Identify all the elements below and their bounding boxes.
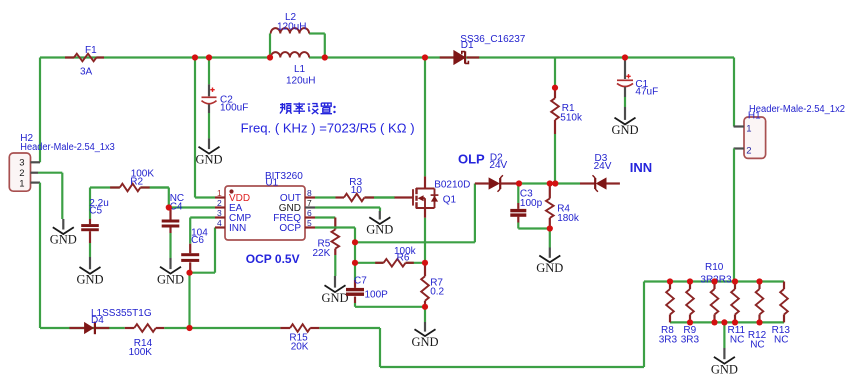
svg-text:47uF: 47uF — [635, 87, 658, 98]
wire top rail left segment (H2.3 to L1) — [40, 58, 270, 163]
resistor R4 180k — [546, 184, 580, 229]
junction Q1 source - R6 - R7 — [422, 260, 428, 266]
svg-text:C5: C5 — [89, 206, 102, 217]
wire H1 pin2 to resistor bank — [733, 149, 735, 282]
junction bank top x=690 — [687, 278, 693, 284]
junction bank top x=735 — [732, 278, 738, 284]
junction R1 bottom node — [552, 180, 558, 186]
diode D2 24V (zener) — [475, 152, 519, 191]
svg-text:6: 6 — [307, 208, 312, 218]
junction bank bottom x=735 — [732, 319, 738, 325]
svg-text:GND: GND — [611, 123, 638, 137]
junction C6-INN — [186, 270, 192, 276]
capacitor C7 100P — [346, 276, 388, 303]
resistor R12 — [756, 282, 764, 323]
svg-text:2: 2 — [746, 145, 751, 156]
junction rail-L1 right — [322, 54, 328, 60]
svg-text:22K: 22K — [313, 248, 331, 259]
wire C7 bottom to R7 bottom — [355, 303, 425, 307]
junction R4 top — [547, 180, 553, 186]
fuse F1 3A — [65, 45, 104, 78]
diode D4 L1SS355T1G — [69, 308, 151, 334]
wire R2 left to C5 — [89, 188, 91, 220]
svg-text:3: 3 — [19, 158, 24, 169]
ground at H2 pin2 — [50, 219, 77, 247]
inductor L2 120uH (parallel) — [271, 12, 309, 34]
junction R1 top — [552, 85, 558, 91]
diode D3 24V (zener) — [580, 153, 620, 192]
svg-text:1: 1 — [746, 123, 751, 134]
junction rail-VDD branch — [192, 54, 198, 60]
resistor R14 100K — [125, 324, 164, 358]
connector H1 Header-Male-2.54_1x2 — [734, 104, 846, 158]
resistor R5 22K — [313, 218, 340, 277]
wire EA net (R2 to U1 pin 2) — [150, 188, 215, 208]
ground under C1 — [611, 107, 638, 137]
resistor R13 — [780, 282, 788, 323]
junction rail-Q1 drain branch — [422, 54, 428, 60]
diode D1 SS36_C16237 (schottky) — [440, 34, 526, 64]
junction INN-bottom wire — [186, 325, 192, 331]
svg-text:24V: 24V — [489, 160, 507, 171]
wire H2 pin2 to ground — [38, 173, 62, 219]
wire top rail right segment (L1 to H1.1) — [309, 58, 734, 127]
svg-text:B0210D: B0210D — [434, 180, 470, 191]
svg-text:24V: 24V — [594, 161, 612, 172]
svg-text:INN: INN — [630, 160, 652, 175]
junction bank bottom x=714.5 — [711, 319, 717, 325]
svg-text:NC: NC — [750, 339, 764, 350]
junction R7 - C7 - ground — [422, 304, 428, 310]
wire U1 pin7 to ground — [315, 208, 380, 212]
svg-text:GND: GND — [50, 233, 77, 247]
capacitor C3 100p — [510, 184, 550, 229]
svg-text:GND: GND — [76, 273, 103, 287]
svg-text:GND: GND — [711, 362, 738, 376]
transistor Q1 B0210D (NMOS) — [374, 58, 470, 263]
svg-text:GND: GND — [195, 152, 222, 166]
resistor R3 10 — [315, 177, 395, 201]
svg-text:GND: GND — [157, 272, 184, 286]
svg-text:F1: F1 — [85, 45, 97, 56]
svg-text:C7: C7 — [354, 276, 367, 287]
svg-text:3A: 3A — [80, 67, 93, 78]
svg-text:GND: GND — [411, 335, 438, 349]
svg-text:1: 1 — [19, 178, 24, 189]
label R11 value — [728, 325, 746, 346]
svg-text:OLP: OLP — [458, 152, 485, 167]
net label INN — [630, 160, 652, 175]
op-amp U1 BIT3260 (controller IC) — [215, 171, 315, 240]
ground under R7 — [411, 307, 438, 349]
wire bottom net to resistor bank — [380, 282, 644, 368]
ground under C5 — [76, 257, 103, 287]
svg-text:120uH: 120uH — [277, 22, 306, 33]
svg-text:OCP: OCP — [279, 223, 301, 234]
junction bank top x=670 — [667, 278, 673, 284]
svg-text:100uF: 100uF — [220, 103, 248, 114]
capacitor C2 100uF — [202, 58, 249, 139]
svg-text:1: 1 — [217, 188, 222, 198]
junction rail-C1 — [622, 54, 628, 60]
wire resistor bank bottom rail — [670, 321, 784, 323]
svg-text:Header-Male-2.54_1x2: Header-Male-2.54_1x2 — [749, 104, 845, 115]
label R13 value — [772, 325, 791, 346]
junction rail-C2 — [206, 54, 212, 60]
junction OCP-R6 — [352, 260, 358, 266]
junction bank top x=759.5 — [756, 278, 762, 284]
svg-text:U1: U1 — [265, 178, 278, 189]
wire resistor bank top rail — [644, 280, 784, 282]
svg-text:D1: D1 — [461, 40, 474, 51]
svg-text:0.2: 0.2 — [430, 286, 444, 297]
wire VDD branch (rail to U1 pin 1) — [195, 58, 215, 198]
ground under R5 — [321, 276, 348, 305]
svg-text:R2: R2 — [130, 177, 143, 188]
capacitor C1 47uF — [617, 58, 658, 108]
label R9 value — [681, 325, 700, 346]
ground under R4 — [536, 229, 563, 276]
svg-text:3: 3 — [217, 208, 222, 218]
junction bank bottom x=759.5 — [756, 319, 762, 325]
svg-text:GND: GND — [536, 261, 563, 275]
net label OLP — [458, 152, 485, 167]
svg-text:120uH: 120uH — [286, 76, 315, 87]
svg-text:NC: NC — [774, 335, 788, 346]
svg-text:510k: 510k — [560, 112, 583, 123]
wire CMP net (U1 pin 3 to C6) — [190, 218, 215, 244]
svg-text:GND: GND — [321, 291, 348, 305]
resistor R9 — [686, 282, 694, 323]
resistor R7 0.2 — [421, 263, 444, 307]
resistor R11 — [731, 282, 739, 323]
wire INN net (U1 pin 4 down to bottom) — [190, 228, 216, 329]
note text: frequency setting (Chinese) — [280, 103, 336, 115]
junction OCP-OLP wire — [352, 239, 358, 245]
svg-text:NC: NC — [730, 335, 744, 346]
note text OCP 0.5V — [246, 252, 300, 266]
svg-text:GND: GND — [366, 223, 393, 237]
junction bank bottom x=690 — [687, 319, 693, 325]
wire OLP net (to D2 anode) — [355, 184, 475, 243]
svg-text:Header-Male-2.54_1x3: Header-Male-2.54_1x3 — [20, 142, 115, 153]
svg-text:5: 5 — [307, 218, 312, 228]
label R10 value — [700, 262, 732, 286]
svg-text:D4: D4 — [91, 315, 104, 326]
svg-text:Q1: Q1 — [443, 195, 457, 206]
svg-text:4: 4 — [217, 218, 222, 228]
svg-text:Freq. ( KHz ) =7023/R5 ( KΩ ): Freq. ( KHz ) =7023/R5 ( KΩ ) — [241, 122, 415, 136]
svg-text:L1: L1 — [294, 64, 306, 75]
svg-text:7: 7 — [307, 198, 312, 208]
junction D2-C3-R4 node — [516, 180, 522, 186]
connector H2 Header-Male-2.54_1x3 — [9, 133, 115, 191]
wire H2 pin1 down (left vertical) — [39, 183, 41, 328]
resistor R1 510k — [551, 58, 583, 184]
note text: Freq formula — [241, 122, 415, 136]
ground under C4 — [157, 258, 184, 286]
junction EA-C4 — [166, 204, 172, 210]
svg-text:3R3: 3R3 — [681, 335, 700, 346]
svg-text:8: 8 — [307, 188, 312, 198]
label R8 value — [659, 325, 678, 346]
svg-text:100P: 100P — [365, 290, 389, 301]
wire OCP net (U1 pin 5 down to C7) — [315, 228, 355, 281]
capacitor C4 NC — [162, 193, 184, 258]
resistor R2 100K — [90, 169, 169, 192]
svg-text:INN: INN — [229, 223, 246, 234]
svg-text:OCP 0.5V: OCP 0.5V — [246, 252, 300, 266]
resistor R6 100k — [355, 246, 425, 266]
ground at U1 pin 7 — [366, 211, 393, 237]
ground under resistor bank — [711, 322, 738, 376]
svg-text:3R3: 3R3 — [659, 335, 678, 346]
svg-text:180k: 180k — [557, 213, 580, 224]
svg-text:20K: 20K — [291, 341, 309, 352]
ground under C2 — [195, 138, 222, 166]
inductor L1 120uH (on rail) — [271, 52, 316, 86]
junction rail-L1 left — [267, 54, 273, 60]
junction bank top x=714.5 — [711, 278, 717, 284]
wire zener line (C3 node to R1 node) — [519, 182, 580, 184]
svg-text:10: 10 — [351, 185, 363, 196]
wire bottom net (H2.1 / D4 / R14 / R15) — [40, 327, 380, 329]
label R12 value — [748, 330, 767, 350]
svg-text:100p: 100p — [520, 198, 543, 209]
svg-text:R6: R6 — [397, 253, 410, 264]
junction bank bottom x=724.4 — [721, 319, 727, 325]
wire L2 parallel branch — [270, 34, 325, 58]
svg-text:H1: H1 — [748, 111, 761, 122]
resistor R10 — [711, 282, 719, 323]
svg-text:2: 2 — [217, 198, 222, 208]
junction R4-C3 bottom — [547, 225, 553, 231]
capacitor C5 2.2u — [81, 198, 109, 257]
wire FREQ net (U1 pin 6 to R5) — [315, 216, 335, 218]
svg-text:C6: C6 — [191, 235, 204, 246]
capacitor C6 104 — [181, 227, 208, 272]
svg-text:100K: 100K — [129, 347, 153, 358]
svg-text:R10: R10 — [705, 262, 724, 273]
resistor R15 20K — [280, 324, 319, 352]
resistor R8 — [666, 282, 674, 323]
